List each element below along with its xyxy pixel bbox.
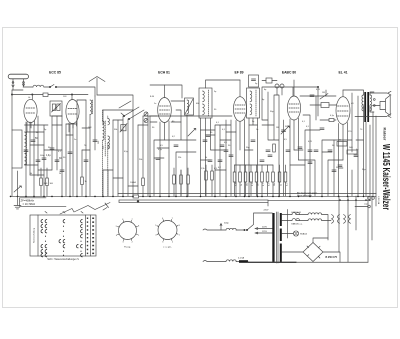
transformer taps xyxy=(255,228,272,234)
agc arrow xyxy=(14,186,21,192)
svg-text:1,0µ: 1,0µ xyxy=(46,155,51,157)
svg-text:20k: 20k xyxy=(274,183,276,186)
svg-text:5: 5 xyxy=(155,225,156,227)
svg-text:1: 1 xyxy=(138,235,139,237)
svg-text:ZF=468kHz: ZF=468kHz xyxy=(21,198,35,202)
junction dots xyxy=(10,196,365,198)
svg-text:0,1: 0,1 xyxy=(286,183,288,186)
socket view 2 xyxy=(158,221,177,240)
heater winding row 1 xyxy=(292,213,300,215)
dial cord diagonal xyxy=(60,203,110,215)
table contact glyphs xyxy=(41,219,82,256)
svg-text:1k: 1k xyxy=(241,184,243,186)
svg-text:250: 250 xyxy=(98,141,100,144)
speaker terminals xyxy=(368,197,371,200)
svg-text:50k: 50k xyxy=(114,129,117,131)
svg-text:Fassg.: Fassg. xyxy=(124,247,131,249)
svg-text:125V: 125V xyxy=(262,231,267,233)
svg-text:SKALA: SKALA xyxy=(300,233,307,236)
svg-text:2: 2 xyxy=(132,241,133,243)
power transformer secondaries xyxy=(280,213,282,226)
bandfilter coils xyxy=(103,121,105,140)
svg-text:1M: 1M xyxy=(276,127,279,129)
svg-text:1: 1 xyxy=(179,235,180,237)
IF transformer T1 xyxy=(199,88,212,118)
svg-text:Lspr.: Lspr. xyxy=(364,204,368,206)
dipole antenna xyxy=(89,77,105,96)
svg-text:220V: 220V xyxy=(262,227,267,229)
svg-text:ECH 81: ECH 81 xyxy=(158,71,170,75)
oscillator trimmer box xyxy=(50,101,62,116)
svg-text:5n: 5n xyxy=(336,167,338,169)
svg-text:Sicht : Tastenumschaltungen S: Sicht : Tastenumschaltungen S xyxy=(47,258,79,261)
resistor bank left xyxy=(205,171,208,180)
switch S1 diagonals xyxy=(119,101,144,119)
wire grid row xyxy=(12,95,88,100)
tube U1b ECC85 xyxy=(66,100,79,124)
svg-text:0,7: 0,7 xyxy=(263,183,265,186)
svg-text:Kaiser: Kaiser xyxy=(383,128,387,142)
svg-text:v. u. ges.: v. u. ges. xyxy=(163,247,172,249)
dial lamps xyxy=(332,215,351,224)
heater winding row 2 xyxy=(292,219,300,221)
socket view 1 xyxy=(119,222,137,240)
svg-text:50k: 50k xyxy=(246,183,248,186)
osc coil L4 xyxy=(185,98,194,115)
wire antenna input xyxy=(33,85,44,87)
svg-text:8: 8 xyxy=(138,226,139,228)
svg-text:1kΩ: 1kΩ xyxy=(349,147,353,149)
svg-text:1,5k: 1,5k xyxy=(201,168,205,170)
bus bar xyxy=(119,200,268,203)
svg-text:Uc: Uc xyxy=(28,97,30,99)
wire dial line xyxy=(97,95,133,110)
svg-text:EABC80 u.a.: EABC80 u.a. xyxy=(292,222,303,225)
capacitors ECC85 xyxy=(31,140,35,142)
bus AVC xyxy=(118,193,376,195)
svg-text:= 10,7MHz: = 10,7MHz xyxy=(23,202,36,206)
power transformer T4 primary xyxy=(272,213,274,262)
svg-text:2k: 2k xyxy=(59,173,61,175)
svg-text:4: 4 xyxy=(155,235,156,237)
svg-text:2: 2 xyxy=(172,241,173,243)
table pin list xyxy=(87,218,94,255)
power transformer core xyxy=(276,212,278,263)
bus main ground xyxy=(11,195,377,197)
svg-text:Masse gemessen: Masse gemessen xyxy=(297,195,312,197)
bus component xyxy=(133,195,139,198)
extra caps xyxy=(24,150,28,152)
svg-text:1n: 1n xyxy=(256,129,258,131)
wires EF89 xyxy=(201,80,258,196)
tube U2 ECH81 xyxy=(158,98,172,123)
svg-text:25k: 25k xyxy=(178,157,181,159)
svg-text:1n: 1n xyxy=(154,103,156,105)
bridge rectifier B250C75 xyxy=(303,243,323,262)
tube U4 EABC80 xyxy=(287,96,300,120)
speaker LS xyxy=(380,95,390,115)
wire links xyxy=(25,96,364,186)
IF transformer T2 upper xyxy=(249,75,259,87)
svg-text:0,15: 0,15 xyxy=(252,182,254,186)
output transformer T3 xyxy=(364,92,366,122)
mains input wires xyxy=(226,228,236,230)
svg-text:1k: 1k xyxy=(205,157,207,159)
svg-text:5k: 5k xyxy=(339,140,341,142)
transformer shield wire xyxy=(287,210,289,239)
tube U1a ECC85 xyxy=(24,99,37,122)
pilot lamp SKALA xyxy=(282,233,294,235)
svg-text:100kΩ: 100kΩ xyxy=(130,182,136,184)
svg-text:0,3M: 0,3M xyxy=(235,181,237,186)
mains bottom wire + fuse xyxy=(226,260,236,262)
coil box L1 L2 xyxy=(12,130,22,168)
svg-text:1M: 1M xyxy=(322,92,325,94)
svg-text:1n: 1n xyxy=(74,139,76,141)
svg-text:4: 4 xyxy=(116,235,117,237)
svg-text:3: 3 xyxy=(122,242,123,244)
svg-text:EL 41: EL 41 xyxy=(339,71,348,75)
ferrite rod antenna xyxy=(8,74,28,79)
bottom bus xyxy=(248,261,296,263)
coupling parts EL41 xyxy=(316,90,352,196)
svg-text:EZ80 EL41: EZ80 EL41 xyxy=(292,212,301,214)
svg-text:ECC 85: ECC 85 xyxy=(49,71,61,75)
IF transformer T2 xyxy=(247,88,260,118)
svg-text:2k: 2k xyxy=(280,184,282,186)
svg-text:2kΩ: 2kΩ xyxy=(44,183,48,185)
tube U3 EF89 xyxy=(233,97,246,122)
wires ECH81 xyxy=(150,85,196,196)
bus B+ xyxy=(268,200,370,202)
ground symbol xyxy=(14,196,21,209)
svg-text:8: 8 xyxy=(179,225,180,227)
svg-text:3: 3 xyxy=(162,242,163,244)
svg-text:5k: 5k xyxy=(30,173,32,175)
resistors ECC85 xyxy=(40,178,43,186)
svg-text:0,1/1A: 0,1/1A xyxy=(238,257,245,260)
svg-text:5: 5 xyxy=(116,226,117,228)
capacitor 500p arrow xyxy=(220,224,222,231)
switch table frame xyxy=(30,215,96,256)
tube U5 EL41 xyxy=(336,97,350,125)
coil L3 xyxy=(90,100,92,114)
resistor EL41 cathode xyxy=(337,142,347,147)
svg-text:20k: 20k xyxy=(139,159,142,161)
svg-text:1M: 1M xyxy=(257,183,259,186)
wires mixer horizontals xyxy=(103,110,148,170)
right verticals xyxy=(334,112,376,262)
svg-text:EF 89: EF 89 xyxy=(234,71,243,75)
svg-text:220V: 220V xyxy=(264,209,269,211)
wires mixer verticals xyxy=(103,110,148,196)
resistor bank xyxy=(234,165,236,196)
wires EABC80 xyxy=(262,87,328,196)
svg-text:B 250 C75: B 250 C75 xyxy=(326,256,338,259)
svg-text:0,3: 0,3 xyxy=(268,183,270,186)
svg-text:EABC 80: EABC 80 xyxy=(282,71,296,75)
wires ECC85 horizontals xyxy=(12,90,90,175)
svg-text:Tastenschaltung: Tastenschaltung xyxy=(33,227,36,243)
wires ECC85 verticals xyxy=(12,90,95,196)
table header ticks xyxy=(45,212,83,214)
svg-text:W 1145 Kaiser-Walzer: W 1145 Kaiser-Walzer xyxy=(380,144,391,210)
svg-text:6,3V 0,3A: 6,3V 0,3A xyxy=(377,196,380,205)
